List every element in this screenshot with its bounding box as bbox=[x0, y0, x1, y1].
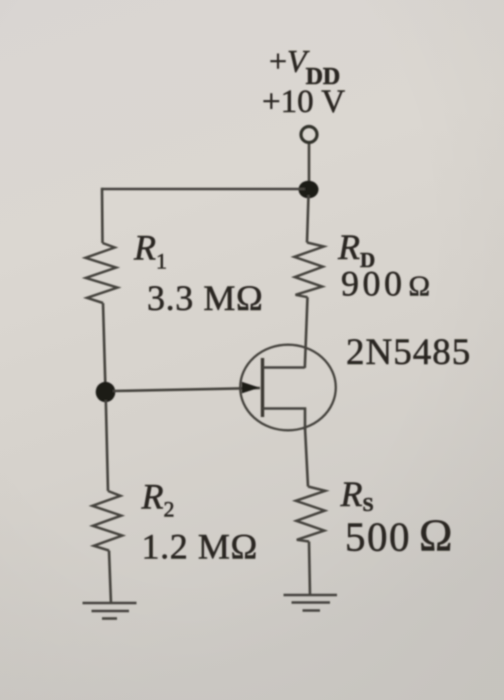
svg-text:+10 V: +10 V bbox=[262, 84, 345, 120]
wire node A to RD bbox=[307, 195, 309, 243]
svg-text:1.2 MΩ: 1.2 MΩ bbox=[142, 527, 258, 567]
resistor RD bbox=[294, 243, 324, 298]
node A junction dot bbox=[299, 181, 319, 199]
gate arrow bbox=[242, 382, 260, 394]
resistor R1 bbox=[86, 243, 118, 303]
transistor Q1 2N5485 bbox=[240, 345, 336, 431]
terminal VDD bbox=[301, 127, 317, 143]
wire RS to ground bbox=[309, 542, 310, 597]
svg-text:2N5485: 2N5485 bbox=[346, 332, 471, 373]
resistor RS bbox=[296, 487, 326, 542]
node B junction dot bbox=[96, 382, 116, 402]
wire gate bbox=[113, 388, 260, 391]
wire rail to R1 bbox=[101, 188, 104, 243]
ground right bbox=[284, 595, 338, 611]
wire terminal to node bbox=[308, 144, 311, 186]
wire RD to drain bbox=[305, 297, 308, 368]
wire top rail bbox=[102, 188, 305, 191]
ground left bbox=[83, 603, 137, 619]
resistor R2 bbox=[92, 491, 122, 551]
wire node B to R2 bbox=[106, 400, 108, 491]
wire R1 to node B bbox=[103, 303, 105, 384]
source lead bbox=[263, 409, 306, 431]
wire source to RS bbox=[305, 428, 308, 487]
JFET channel bar bbox=[261, 358, 264, 417]
svg-text:3.3 MΩ: 3.3 MΩ bbox=[147, 278, 263, 318]
JFET body circle bbox=[240, 345, 336, 431]
drain lead bbox=[263, 366, 305, 369]
svg-text:500Ω: 500Ω bbox=[345, 511, 452, 561]
wire R2 to ground bbox=[109, 551, 111, 605]
